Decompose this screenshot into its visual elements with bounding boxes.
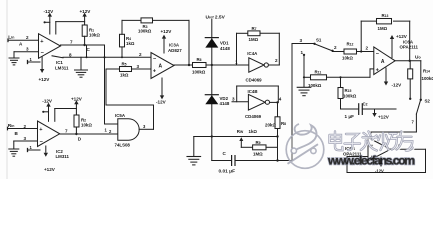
svg-text:LM311: LM311 — [56, 154, 70, 159]
wire up to R5 row — [105, 69, 107, 105]
svg-text:3: 3 — [232, 96, 235, 101]
IC4B feedback loop left — [236, 86, 238, 102]
label CD4069 (IC4B) — [245, 114, 262, 119]
wire IC3A output — [174, 64, 193, 66]
wire IC2 -in — [14, 140, 38, 142]
power +12V (below IC2) — [44, 153, 56, 172]
power +12V (R2 pull-up) — [71, 96, 83, 115]
pin 1 label IC4A — [235, 60, 238, 65]
wire IC2 V+ over to R2 top — [55, 109, 77, 122]
wire IC2 -in to ground — [13, 141, 15, 149]
svg-text:1: 1 — [30, 57, 33, 62]
op-amp IC6A triangle — [374, 47, 395, 75]
resistor R6 — [192, 57, 206, 74]
label IC1 — [55, 60, 69, 70]
power -12V (IC3A bottom) — [156, 78, 167, 104]
pin 3 label S1 — [300, 38, 303, 43]
svg-text:+12V: +12V — [161, 29, 173, 34]
wire to R11 — [304, 76, 311, 78]
wire pin8 row to IC3A -in — [63, 56, 151, 58]
svg-text:Uref 2.5V: Uref 2.5V — [206, 15, 226, 21]
svg-text:OPA2111: OPA2111 — [400, 45, 419, 50]
wire wiper to R10 — [241, 146, 252, 148]
wire IC1 V- to +12V below — [41, 57, 43, 69]
pin 3 label — [26, 47, 29, 52]
wire pot row ground drop — [193, 137, 195, 156]
resistor R8 20k — [265, 117, 286, 129]
svg-text:1kΩ: 1kΩ — [120, 73, 129, 78]
power -12V (IC6A bottom) — [384, 68, 402, 87]
pin 3 label IC4B — [232, 96, 235, 101]
svg-text:1: 1 — [301, 50, 304, 55]
label IC4B — [248, 89, 258, 94]
svg-text:+12V: +12V — [39, 77, 51, 82]
svg-text:2: 2 — [109, 129, 112, 134]
svg-text:R7: R7 — [252, 26, 257, 31]
ground (near IC1) — [75, 70, 88, 77]
svg-text:R5: R5 — [122, 61, 127, 66]
junction dot cap row — [276, 159, 278, 161]
IC4A feedback loop left — [236, 33, 238, 65]
wire IC2 V bottom to +12V below — [45, 146, 47, 152]
svg-text:R11: R11 — [315, 70, 322, 75]
pin 1 label IC1 — [30, 57, 33, 62]
power +12V (IC6B) — [372, 109, 389, 120]
op-amp IC2 triangle — [38, 121, 60, 147]
resistor R14 100k vertical — [408, 69, 433, 81]
wire ground drop — [80, 57, 82, 69]
svg-text:-12V: -12V — [375, 168, 384, 173]
svg-text:2: 2 — [139, 52, 142, 57]
wire Rin to IC2 +in — [8, 127, 38, 130]
resistor R5 — [120, 61, 132, 77]
pin 5 label IC6B — [398, 144, 401, 149]
svg-text:0.01 μF: 0.01 μF — [219, 168, 236, 174]
wire up to IC6A +in — [369, 69, 371, 77]
svg-text:A: A — [159, 64, 163, 70]
junction dot R11 row / R15 — [339, 76, 341, 78]
ground (contact1) — [297, 87, 311, 95]
svg-text:4: 4 — [279, 97, 282, 102]
pin 7 label — [70, 40, 73, 45]
wire IC1 V- up to -12V — [49, 16, 51, 34]
pin 1 stub IC1 — [28, 61, 41, 64]
wire loop to +in — [347, 156, 368, 158]
watermark logo and text — [286, 124, 415, 168]
IC4A loop top left — [237, 32, 248, 34]
pin 3 label IC2 — [24, 136, 27, 141]
junction stub dot IC2 — [42, 111, 48, 113]
wire down to cap row — [277, 137, 279, 161]
wire feedback row right — [153, 19, 190, 21]
wire R10 right — [266, 146, 278, 148]
diode VD2 — [205, 95, 230, 107]
wire IC1 -in — [14, 51, 39, 53]
svg-text:1kΩ: 1kΩ — [126, 41, 135, 46]
op-amp IC1 triangle — [39, 34, 61, 59]
wire IC6A feedback top left — [361, 20, 379, 22]
wire IC1 output — [61, 44, 105, 46]
wire IC2 output to gate — [60, 133, 118, 135]
IC4B loop right down — [277, 86, 279, 102]
pin labels gate inputs — [105, 128, 113, 134]
label IC3A — [168, 43, 182, 53]
resistor R13 1M — [377, 13, 392, 31]
switch S1 — [313, 38, 333, 52]
svg-text:+12V: +12V — [80, 9, 92, 14]
wire R15 down to cap row — [340, 99, 342, 110]
resistor R1 — [82, 25, 100, 37]
power +12V (below IC1) — [39, 69, 51, 82]
svg-text:Uo: Uo — [415, 55, 421, 61]
wire Uref bus vertical — [211, 20, 213, 161]
svg-text:C: C — [87, 47, 91, 52]
resistor R15 100k vertical — [338, 88, 357, 99]
svg-text:10kΩ: 10kΩ — [89, 32, 100, 37]
wire contact1 down — [303, 55, 305, 77]
wire IC4B out down — [277, 102, 279, 116]
wire S2 pivot down — [415, 114, 417, 132]
gate input wire top bend — [105, 123, 118, 125]
pin 1 label IC2 — [30, 145, 33, 150]
capacitor C — [219, 151, 236, 174]
pin 4 label IC4B — [279, 97, 282, 102]
resistor R4 — [120, 34, 135, 47]
svg-text:B: B — [15, 131, 19, 136]
inverter IC4B — [248, 94, 269, 110]
resistor R11 100k — [308, 70, 327, 88]
power +12V (IC6A) — [390, 34, 408, 58]
wire node C down to gate input — [104, 45, 106, 124]
wire IC6A feedback right down — [409, 21, 411, 61]
svg-text:2: 2 — [24, 124, 27, 129]
op-amp IC6B triangle — [368, 138, 391, 162]
resistor R2 — [74, 115, 92, 128]
svg-text:VD1: VD1 — [220, 40, 229, 45]
wire output down branch — [409, 61, 411, 69]
svg-text:CD4069: CD4069 — [246, 78, 263, 83]
svg-text:3: 3 — [300, 38, 303, 43]
wire contact1 ground drop — [303, 77, 305, 86]
junction dot feedback tap — [360, 50, 362, 52]
wire IC6B output — [391, 148, 426, 150]
power -12V (IC6B bottom) — [375, 157, 384, 173]
wire cap C2 row right — [362, 108, 396, 110]
junction stub dot — [44, 21, 50, 23]
wire feedback down to output — [188, 20, 190, 65]
svg-text:R6: R6 — [197, 57, 202, 62]
svg-text:100kΩ: 100kΩ — [192, 69, 206, 74]
node Rin label — [8, 123, 15, 129]
svg-text:-12V: -12V — [44, 9, 55, 14]
wire into +in — [370, 68, 374, 70]
svg-text:10kΩ: 10kΩ — [342, 56, 353, 61]
node C junction — [83, 44, 90, 52]
pin 7 label S2 — [412, 120, 415, 125]
svg-text:www.elecfans.com: www.elecfans.com — [327, 153, 415, 167]
svg-text:74LS08: 74LS08 — [115, 142, 131, 147]
resistor R3 — [138, 18, 153, 34]
svg-text:R8: R8 — [281, 121, 286, 126]
svg-text:3: 3 — [24, 136, 27, 141]
svg-text:R13: R13 — [382, 13, 389, 18]
junction crossing dot — [103, 56, 105, 58]
svg-text:100kΩ: 100kΩ — [138, 29, 152, 34]
wire R12 to IC6A -in — [357, 51, 374, 53]
pin 2 label — [26, 35, 29, 40]
svg-text:CD4069: CD4069 — [245, 114, 262, 119]
svg-text:IC5A: IC5A — [115, 113, 126, 118]
wire S2 row to IC6B — [371, 131, 416, 133]
wire R8 down to pot row — [277, 129, 279, 137]
pin 2 label S1 — [334, 45, 337, 50]
wire C to pin8 row — [86, 45, 88, 57]
wire Lin to IC1 +in — [8, 39, 39, 42]
pin 1 stub IC2 — [28, 149, 41, 152]
wire cap C2 row — [341, 108, 359, 110]
svg-text:RW: RW — [237, 129, 244, 134]
label 74LS08 — [115, 142, 131, 147]
wire IC4A output — [268, 64, 279, 66]
wire R6 to Uref bus — [206, 64, 212, 66]
wire IC4B input — [232, 101, 248, 103]
IC4A loop right down — [278, 33, 280, 65]
svg-text:-12V: -12V — [392, 82, 403, 87]
IC4A loop top right — [260, 32, 279, 34]
op-amp IC3A triangle — [151, 53, 174, 79]
svg-text:7: 7 — [70, 40, 73, 45]
contact 1 of S1 — [301, 50, 306, 56]
svg-text:100kΩ: 100kΩ — [343, 93, 357, 98]
junction dot IC4B out — [276, 101, 278, 103]
wire down to R15 — [340, 77, 342, 87]
wire IC4B output — [270, 101, 278, 103]
svg-text:4148: 4148 — [220, 101, 230, 106]
wire IC6B loop right down — [425, 149, 427, 172]
svg-text:Lin: Lin — [8, 35, 14, 41]
ground (IC2 -in) — [9, 149, 19, 156]
wire gate output up — [153, 105, 155, 129]
node B label — [15, 131, 19, 136]
svg-text:2: 2 — [26, 35, 29, 40]
svg-text:1 μF: 1 μF — [345, 114, 355, 119]
label IC6A — [400, 40, 419, 50]
svg-text:1: 1 — [105, 128, 108, 133]
pin 7 label IC2 — [65, 129, 68, 134]
svg-text:+12V: +12V — [71, 96, 83, 101]
svg-text:R12: R12 — [347, 41, 354, 46]
svg-text:AD827: AD827 — [168, 48, 182, 53]
svg-text:LM311: LM311 — [55, 65, 69, 70]
wire R5 to IC3A +in — [132, 68, 152, 70]
pin 3 label gate — [143, 124, 146, 129]
power -12V (IC1 top) — [44, 9, 55, 17]
ground (IC1 -in) — [9, 58, 19, 65]
wire R4 top to feedback row — [121, 20, 123, 34]
wire IC6A feedback left up — [360, 21, 362, 51]
svg-text:2: 2 — [334, 45, 337, 50]
label CD4069 (IC4A) — [246, 78, 263, 83]
wire R1 bottom to node C — [84, 36, 86, 45]
wire pin8 diagonal — [52, 56, 63, 58]
svg-text:10kΩ: 10kΩ — [81, 123, 92, 128]
label Uref 2.5V — [206, 15, 226, 21]
svg-text:1MΩ: 1MΩ — [378, 26, 388, 31]
wire to IC4A input — [212, 64, 249, 66]
wire riser to S1 — [292, 43, 314, 45]
switch S2 — [409, 98, 430, 114]
wire gate output — [139, 128, 153, 130]
svg-text:3: 3 — [137, 64, 140, 69]
svg-text:C2: C2 — [363, 101, 368, 106]
svg-text:-12V: -12V — [42, 99, 53, 104]
svg-text:1: 1 — [30, 145, 33, 150]
wire Uref bus elbow to cap row — [212, 160, 231, 162]
resistor R10 — [253, 140, 266, 157]
pin 2 label IC6A — [366, 46, 369, 51]
label Rw 1kohm — [237, 129, 258, 134]
junction dot contact1 row — [303, 76, 305, 78]
pin 2 label IC3A — [139, 52, 142, 57]
svg-text:3: 3 — [26, 47, 29, 52]
inverter IC4A — [249, 58, 269, 72]
svg-text:+12V: +12V — [44, 167, 56, 172]
svg-text:1MΩ: 1MΩ — [253, 152, 263, 157]
svg-text:3: 3 — [143, 124, 146, 129]
wire IC6B loop bottom — [347, 172, 426, 174]
pin 2 label IC2 — [24, 124, 27, 129]
potentiometer wiper arrow — [239, 137, 243, 147]
junction dot on IC3A output — [188, 64, 190, 66]
wire -in to ground — [13, 52, 15, 58]
svg-text:100kΩ: 100kΩ — [422, 76, 433, 81]
ground (pot row) — [187, 157, 201, 165]
node D junction — [75, 133, 82, 142]
label IC2 — [56, 149, 70, 159]
diode VD1 — [205, 38, 230, 51]
wire IC6A output — [395, 60, 421, 62]
wire R2 bottom to node D — [75, 127, 77, 134]
svg-text:IC1: IC1 — [56, 60, 63, 65]
node A label — [19, 42, 23, 47]
svg-text:S2: S2 — [425, 99, 431, 104]
wire down to IC6B -in — [370, 132, 372, 144]
wire into R5 — [106, 68, 120, 70]
wire R11 right — [327, 76, 371, 78]
IC4B loop top — [237, 85, 279, 87]
power -12V (IC2 top) — [42, 99, 53, 107]
label Uo — [415, 55, 421, 61]
svg-text:20kΩ: 20kΩ — [265, 122, 276, 127]
wire cap row right — [235, 160, 292, 162]
pin 3 label IC3A — [137, 64, 140, 69]
power +12V (IC3A top) — [161, 29, 173, 53]
wire S1 contact2 to R12 — [333, 51, 345, 53]
svg-text:VD2: VD2 — [220, 96, 229, 101]
svg-text:4148: 4148 — [220, 46, 230, 51]
svg-text:2: 2 — [366, 46, 369, 51]
label IC4A — [247, 51, 258, 56]
frame left faint line — [6, 0, 8, 179]
svg-text:A: A — [19, 42, 23, 47]
svg-text:1kΩ: 1kΩ — [249, 129, 258, 134]
label IC5A — [115, 113, 126, 118]
wire right section riser — [291, 44, 293, 161]
AND gate IC5A — [118, 119, 139, 140]
svg-text:S1: S1 — [316, 38, 322, 43]
wire pot row — [194, 136, 278, 138]
svg-text:IC4B: IC4B — [248, 89, 258, 94]
svg-text:R14: R14 — [423, 69, 430, 74]
wire IC2 V- up to -12V — [48, 106, 50, 121]
svg-text:C: C — [223, 151, 227, 156]
power +12V (R1 pull-up) — [80, 9, 92, 25]
label IC6B — [343, 146, 362, 157]
wire feedback row left — [122, 19, 141, 21]
junction dot Uref/R6 — [211, 64, 213, 66]
svg-text:7: 7 — [412, 120, 415, 125]
wire R4 vertical line — [121, 47, 123, 57]
node Lin label — [8, 35, 14, 41]
svg-text:D: D — [78, 136, 82, 141]
resistor R7 — [248, 26, 260, 42]
capacitor C2 1uF — [345, 101, 368, 119]
junction dot output/feedback — [409, 60, 411, 62]
svg-text:+12V: +12V — [378, 115, 390, 120]
wire over to R5 branch — [106, 104, 154, 106]
svg-text:A: A — [381, 59, 385, 65]
watermark url text — [327, 153, 415, 167]
svg-text:+12V: +12V — [396, 34, 408, 39]
svg-text:-12V: -12V — [156, 99, 167, 104]
svg-text:IC4A: IC4A — [247, 51, 258, 56]
junction dot bus/pot row — [211, 135, 213, 137]
wire Uo down to S2 contact — [420, 61, 422, 100]
svg-text:2: 2 — [275, 58, 278, 63]
svg-text:7: 7 — [65, 129, 68, 134]
junction dot R8/pot row — [276, 135, 278, 137]
pin 8 label — [69, 53, 72, 58]
wire IC6B loop left up — [346, 157, 348, 173]
pin 2 label IC4A — [275, 58, 278, 63]
wire IC6A feedback top right — [394, 20, 410, 22]
resistor R12 10k — [342, 41, 357, 60]
svg-text:1MΩ: 1MΩ — [249, 37, 259, 42]
svg-text:R15: R15 — [345, 88, 352, 93]
wire IC1 V+ over to R1 top — [56, 22, 85, 34]
svg-text:R9: R9 — [256, 140, 261, 145]
wire R14 down to S2 contact — [409, 79, 411, 99]
